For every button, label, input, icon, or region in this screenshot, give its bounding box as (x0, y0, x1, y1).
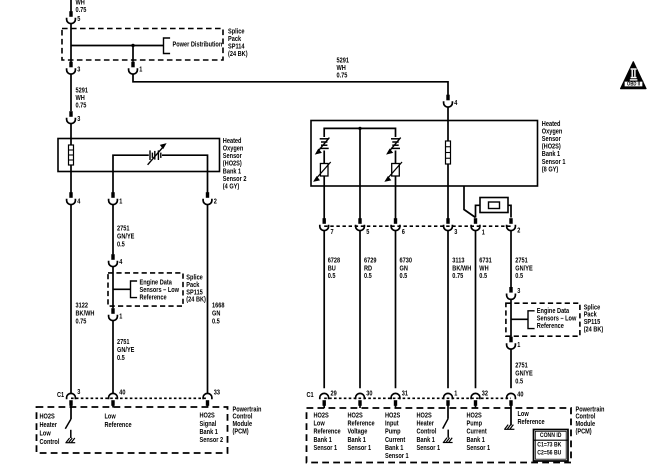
svg-text:5: 5 (366, 229, 369, 236)
svg-text:HO2S: HO2S (348, 413, 364, 420)
PCM box left (37, 406, 262, 453)
svg-text:Reference: Reference (140, 294, 167, 301)
connector pin 5 (356, 218, 370, 236)
CONN ID table (534, 430, 569, 462)
wire calibration box to pin 1 (476, 205, 481, 217)
svg-text:Sensor 1: Sensor 1 (467, 445, 491, 452)
svg-text:0.5: 0.5 (400, 273, 408, 280)
wire into SP115 (112, 267, 114, 309)
ground (left PCM) (65, 430, 75, 443)
wire splice bus SP114 (71, 45, 164, 47)
svg-text:4: 4 (119, 259, 122, 266)
svg-text:WH: WH (337, 65, 346, 72)
svg-text:GN/YE: GN/YE (515, 370, 533, 377)
svg-text:1: 1 (139, 67, 142, 74)
HO2S bank1 sensor1 box (311, 121, 566, 187)
calibration resistor box (480, 198, 508, 213)
svg-text:Sensors – Low: Sensors – Low (537, 315, 577, 322)
svg-text:Reference: Reference (105, 422, 132, 429)
svg-text:Sensor 2: Sensor 2 (223, 176, 247, 183)
connector C1 pin 32 (471, 391, 488, 406)
wire 5291 WH 0.75 label left (71, 74, 88, 111)
svg-text:CONN ID: CONN ID (540, 432, 562, 439)
wire 3122 BK/WH 0.75 (71, 205, 94, 394)
wire 6731 WH 0.5 (476, 231, 492, 389)
svg-text:Sensor 1: Sensor 1 (385, 453, 409, 460)
svg-text:HO2S: HO2S (467, 413, 483, 420)
svg-text:1668: 1668 (212, 302, 225, 309)
svg-text:6730: 6730 (400, 258, 413, 265)
variable resistor box B (385, 162, 402, 181)
wire into HO2S heater (70, 124, 72, 145)
connector 1 (SP114 right) (132, 46, 134, 62)
switch HO2S heater low control (left) (65, 408, 71, 429)
sensing element A zigzag (316, 138, 330, 154)
svg-text:Heater: Heater (417, 421, 435, 428)
svg-text:5: 5 (77, 16, 80, 23)
connector pin 4 (67, 192, 81, 205)
svg-text:C2=56 BU: C2=56 BU (537, 450, 561, 457)
svg-text:Engine Data: Engine Data (537, 308, 569, 315)
svg-text:1: 1 (119, 198, 122, 205)
connector pin 7 (320, 218, 334, 236)
svg-text:3113: 3113 (452, 258, 464, 265)
wire box to pin 1 diagonal (464, 186, 476, 218)
wire 6730 GN 0.5 (396, 231, 413, 389)
wire 2751 GN/YE 0.5 lower (113, 321, 135, 394)
wire 6729 RD 0.5 (360, 231, 377, 389)
svg-text:Low: Low (105, 413, 117, 420)
svg-text:BK/WH: BK/WH (452, 265, 471, 272)
wire Low Reference to ground right (511, 408, 545, 426)
svg-text:33: 33 (214, 389, 220, 396)
wire 2751 GN/YE 0.5 right lower (511, 349, 533, 388)
wire into right heater (447, 107, 449, 141)
sensing element left (variable) (148, 144, 166, 165)
svg-text:Splice: Splice (228, 29, 245, 36)
svg-text:BU: BU (328, 265, 336, 272)
HO2S bank1 sensor2 box (58, 138, 247, 191)
svg-text:3: 3 (517, 288, 520, 295)
svg-text:Pack: Pack (584, 312, 597, 319)
connector C1 pin 29 (320, 391, 337, 406)
ground (right PCM switch) (443, 430, 453, 443)
svg-text:32: 32 (482, 391, 488, 398)
heater element left (69, 145, 74, 165)
svg-text:Low: Low (314, 421, 326, 428)
svg-text:Powertrain: Powertrain (233, 406, 262, 413)
svg-text:(24 BK): (24 BK) (228, 51, 248, 58)
connector C1 pin 3 (67, 389, 81, 406)
svg-text:0.75: 0.75 (76, 103, 87, 110)
sensing element B zigzag (387, 138, 401, 154)
wire into SP115 right (510, 299, 512, 336)
svg-text:GN/YE: GN/YE (117, 347, 135, 354)
svg-text:3: 3 (454, 229, 457, 236)
wire dashed C1 connector row right (324, 397, 511, 399)
svg-text:(PCM): (PCM) (233, 428, 249, 435)
svg-text:2751: 2751 (117, 225, 130, 232)
svg-text:3122: 3122 (76, 302, 89, 309)
connector 1 (SP115 right bottom) (507, 337, 521, 349)
svg-text:Reference: Reference (348, 421, 375, 428)
svg-text:0.75: 0.75 (337, 73, 348, 80)
svg-text:0.5: 0.5 (515, 273, 523, 280)
svg-text:40: 40 (517, 392, 523, 399)
wire 3113 BK/WH 0.75 (448, 231, 471, 389)
svg-text:Bank 1: Bank 1 (223, 168, 241, 175)
svg-text:3: 3 (77, 389, 80, 396)
svg-text:Sensor 2: Sensor 2 (200, 437, 224, 444)
svg-text:0.5: 0.5 (212, 318, 220, 325)
svg-text:Reference: Reference (518, 419, 545, 426)
wire stubs into PCM left (70, 404, 72, 408)
svg-text:6: 6 (402, 229, 405, 236)
svg-text:0.75: 0.75 (76, 7, 87, 14)
connector C1 pin 31 (391, 391, 408, 406)
svg-text:29: 29 (331, 391, 337, 398)
wire 1668 GN 0.5 (208, 205, 225, 394)
svg-text:30: 30 (366, 391, 372, 398)
svg-text:1: 1 (119, 313, 122, 320)
svg-text:2: 2 (214, 198, 217, 205)
connector C1 pin 30 (356, 391, 373, 406)
svg-text:Sensor 1: Sensor 1 (417, 445, 441, 452)
wire dashed connector row right sensor (324, 225, 511, 227)
svg-text:2: 2 (517, 227, 520, 234)
svg-text:Bank 1: Bank 1 (542, 151, 560, 158)
splice pack SP115 left box (108, 273, 206, 306)
svg-text:5291: 5291 (337, 58, 350, 65)
svg-text:Control: Control (576, 414, 596, 421)
svg-text:1: 1 (482, 230, 485, 237)
heater element right (446, 141, 451, 164)
svg-text:Low: Low (518, 411, 530, 418)
svg-text:Low: Low (40, 431, 52, 438)
svg-text:2751: 2751 (117, 339, 130, 346)
svg-text:4: 4 (77, 198, 80, 205)
wire element A to pin 7 (323, 176, 325, 219)
OBD II marker (621, 62, 646, 89)
connector C1 pin 40 (109, 389, 126, 406)
svg-text:40: 40 (119, 389, 125, 396)
wire heater to pin 3 (447, 164, 449, 219)
svg-text:Engine Data: Engine Data (140, 279, 172, 286)
svg-text:Voltage: Voltage (348, 429, 368, 436)
Power Distribution bracket (164, 38, 223, 54)
svg-text:Sensors – Low: Sensors – Low (140, 287, 180, 294)
svg-text:Bank 1: Bank 1 (314, 437, 332, 444)
svg-text:Heated: Heated (542, 121, 561, 128)
svg-text:WH: WH (76, 95, 85, 102)
svg-text:Signal: Signal (200, 421, 217, 428)
svg-text:(24 BK): (24 BK) (584, 327, 604, 334)
svg-text:(4 GY): (4 GY) (223, 184, 239, 191)
wire 2751 GN/YE 0.5 upper (113, 205, 135, 255)
connector pin 1 (471, 218, 485, 237)
svg-text:2751: 2751 (515, 362, 528, 369)
svg-text:0.5: 0.5 (328, 273, 336, 280)
svg-text:(8 GY): (8 GY) (542, 166, 558, 173)
svg-text:Control: Control (233, 414, 253, 421)
wire heater to pin 4 (70, 165, 72, 193)
svg-text:Pack: Pack (228, 36, 241, 43)
svg-text:6729: 6729 (364, 258, 377, 265)
svg-text:Pack: Pack (186, 282, 199, 289)
svg-text:Bank 1: Bank 1 (200, 429, 218, 436)
svg-text:Pump: Pump (385, 429, 401, 436)
wire pin5 from bus (359, 128, 361, 218)
splice pack SP114 box (62, 29, 248, 61)
svg-text:0.5: 0.5 (117, 241, 125, 248)
svg-text:Control: Control (40, 439, 60, 446)
svg-text:0.5: 0.5 (364, 273, 372, 280)
ground (right PCM low reference) (504, 425, 514, 430)
svg-text:Bank 1: Bank 1 (467, 437, 485, 444)
wire dashed C1 connector row left (71, 397, 208, 399)
svg-text:Reference: Reference (537, 323, 564, 330)
connector pin 2 (203, 192, 217, 205)
node splice junction SP114 (131, 44, 134, 47)
wire pin1 up to sensing element (113, 155, 149, 193)
Engine Data Sensors Low Reference bracket right (511, 308, 577, 330)
svg-text:C1=73 BK: C1=73 BK (537, 442, 561, 449)
svg-text:Sensor 1: Sensor 1 (348, 445, 372, 452)
svg-text:1: 1 (454, 391, 457, 398)
svg-text:Bank 1: Bank 1 (348, 437, 366, 444)
svg-text:(24 BK): (24 BK) (186, 297, 206, 304)
svg-text:OBD II: OBD II (627, 82, 640, 88)
svg-text:GN: GN (400, 265, 408, 272)
svg-text:C1: C1 (307, 392, 314, 399)
connector C1 pin 1 (444, 391, 458, 406)
connector pin 1 (109, 192, 123, 205)
svg-text:(HO2S): (HO2S) (223, 161, 242, 168)
svg-text:(HO2S): (HO2S) (542, 144, 561, 151)
connector pin 2 (507, 218, 521, 234)
svg-text:Heated: Heated (223, 138, 242, 145)
connector pin 6 (391, 218, 405, 236)
connector 3 (SP115 right top) (507, 287, 521, 299)
node bus junction (358, 127, 361, 130)
wire 5291 WH to right sensor (133, 74, 448, 95)
svg-text:Sensor: Sensor (542, 136, 561, 143)
wire sensing element to pin 2 (162, 155, 208, 193)
svg-text:3: 3 (77, 116, 80, 123)
svg-text:6728: 6728 (328, 258, 341, 265)
svg-text:GN/YE: GN/YE (515, 265, 533, 272)
svg-text:Current: Current (385, 437, 406, 444)
svg-text:HO2S: HO2S (314, 413, 330, 420)
connector C1 pin 33 (203, 389, 220, 406)
svg-text:Powertrain: Powertrain (576, 406, 605, 413)
wire 6728 BU 0.5 (324, 231, 340, 389)
svg-text:3: 3 (77, 67, 80, 74)
svg-text:WH: WH (76, 0, 85, 7)
svg-text:SP115: SP115 (584, 319, 601, 326)
svg-text:Sensor: Sensor (223, 153, 242, 160)
wire 5291 WH 0.75 label right (337, 58, 350, 80)
wire WH 0.75 from top (71, 0, 86, 14)
wire stubs into PCM right (323, 404, 325, 408)
connector pin 3 (444, 218, 458, 236)
svg-text:Input: Input (385, 421, 399, 428)
svg-text:HO2S: HO2S (417, 413, 433, 420)
connector 3 (SP114 left) (67, 62, 81, 74)
svg-text:Bank 1: Bank 1 (417, 437, 435, 444)
svg-text:Splice: Splice (186, 275, 203, 282)
svg-text:GN/YE: GN/YE (117, 233, 135, 240)
connector 3 (to HO2S bank1 sensor2) (67, 111, 81, 123)
svg-text:Heater: Heater (40, 422, 58, 429)
svg-text:Module: Module (233, 421, 253, 428)
wire element B to pin 6 (395, 176, 397, 219)
svg-text:0.75: 0.75 (76, 318, 87, 325)
svg-text:Oxygen: Oxygen (542, 128, 563, 135)
wire 2751 GN/YE 0.5 right upper (511, 231, 533, 288)
svg-text:(PCM): (PCM) (576, 428, 592, 435)
svg-text:GN: GN (212, 310, 220, 317)
svg-text:0.5: 0.5 (117, 355, 125, 362)
svg-text:SP115: SP115 (186, 289, 203, 296)
svg-text:BK/WH: BK/WH (76, 310, 95, 317)
Engine Data Sensors Low Reference bracket left (113, 279, 179, 301)
wire element A (323, 151, 325, 164)
svg-text:1: 1 (517, 342, 520, 349)
switch HO2S heater control (right) (443, 408, 448, 429)
svg-text:4: 4 (454, 100, 457, 107)
svg-text:C1: C1 (57, 392, 64, 399)
svg-text:Power Distribution: Power Distribution (173, 41, 223, 48)
variable resistor box A (314, 162, 331, 181)
svg-text:WH: WH (479, 265, 488, 272)
svg-text:SP114: SP114 (228, 44, 245, 51)
svg-text:6731: 6731 (479, 258, 492, 265)
connector 4 right (444, 95, 458, 107)
svg-text:Module: Module (576, 421, 596, 428)
svg-text:2751: 2751 (515, 258, 528, 265)
wire calibration box to pin 2 (508, 205, 511, 217)
svg-text:Sensor 1: Sensor 1 (542, 159, 566, 166)
svg-text:Control: Control (417, 429, 437, 436)
svg-text:5291: 5291 (76, 88, 89, 95)
svg-text:Reference: Reference (314, 429, 341, 436)
wire element B (395, 151, 397, 164)
connector 1 (SP115 left bottom) (109, 308, 123, 320)
svg-text:Splice: Splice (584, 304, 601, 311)
wire into splice pack SP114 (70, 24, 72, 62)
connector C1 pin 40 right (507, 392, 524, 406)
svg-text:Oxygen: Oxygen (223, 146, 244, 153)
svg-text:0.75: 0.75 (452, 273, 463, 280)
connector 4 (SP115 left top) (109, 254, 123, 266)
svg-text:Sensor 1: Sensor 1 (314, 445, 338, 452)
splice pack SP115 right box (506, 303, 603, 336)
wire sensor bus right box (324, 128, 395, 137)
svg-text:31: 31 (402, 391, 408, 398)
svg-text:Pump: Pump (467, 421, 483, 428)
svg-text:0.5: 0.5 (479, 273, 487, 280)
connector 5 (67, 11, 81, 23)
svg-text:7: 7 (331, 229, 334, 236)
svg-text:HO2S: HO2S (40, 413, 56, 420)
svg-text:HO2S: HO2S (200, 413, 216, 420)
svg-text:Current: Current (467, 429, 488, 436)
svg-text:HO2S: HO2S (385, 413, 401, 420)
svg-text:Bank 1: Bank 1 (385, 445, 403, 452)
svg-text:RD: RD (364, 265, 372, 272)
PCM box right (307, 406, 605, 462)
svg-text:0.5: 0.5 (515, 378, 523, 385)
